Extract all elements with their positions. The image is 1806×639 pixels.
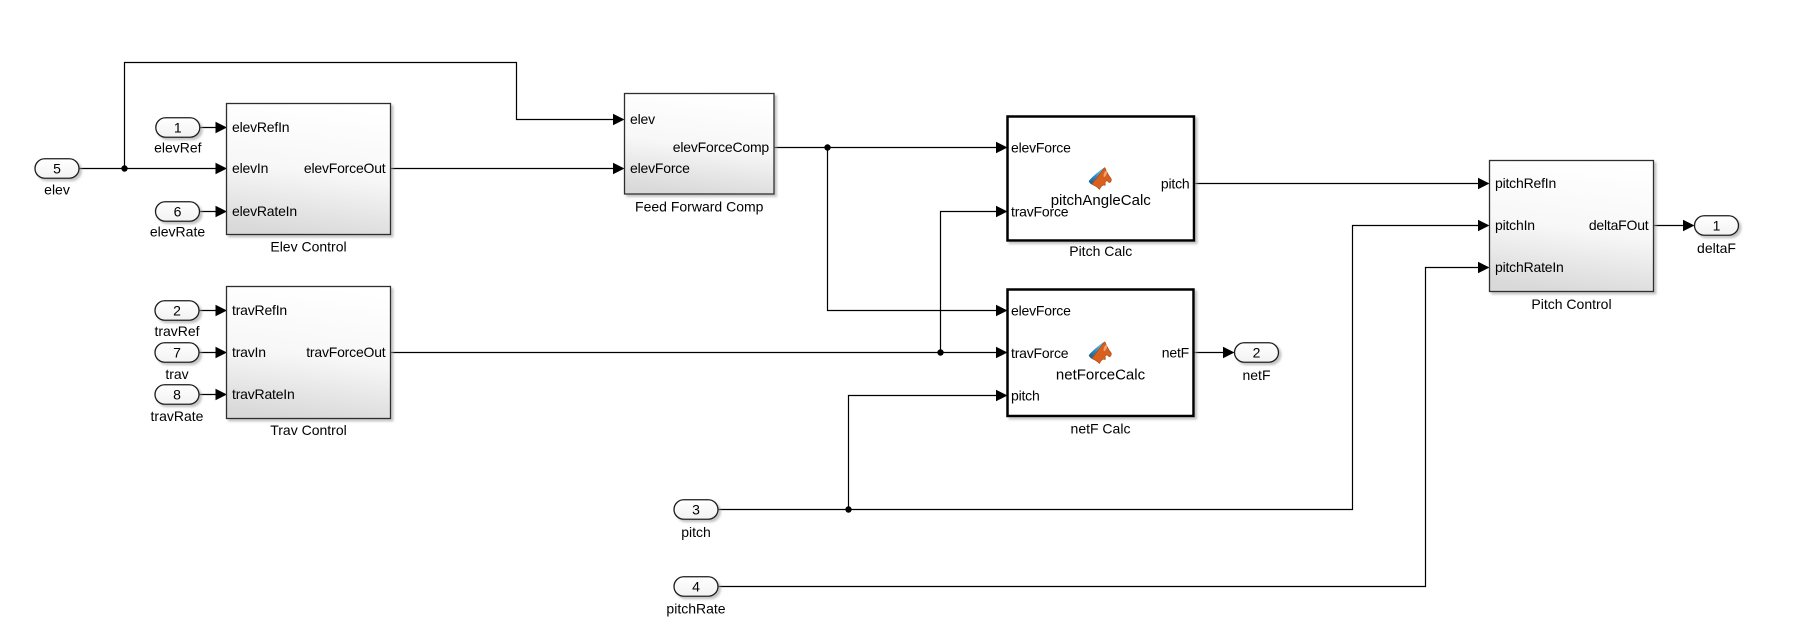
svg-text:pitchRate: pitchRate — [666, 600, 725, 616]
wire arrowhead into netF port — [1223, 347, 1235, 358]
wire arrowhead into travForce of netF Calc — [996, 347, 1008, 358]
svg-text:deltaFOut: deltaFOut — [1589, 217, 1649, 233]
wire arrowhead into travIn — [216, 347, 228, 358]
svg-text:elev: elev — [630, 111, 655, 127]
subsystem block Pitch Control — [1490, 161, 1654, 313]
wire pitchRate to pitchRateIn — [718, 268, 1483, 587]
node junction on pitch line — [845, 506, 851, 512]
wire elevForceComp branch to netF Calc — [828, 148, 1002, 311]
wire travRate to travRateIn — [199, 394, 221, 396]
outport 1 (deltaF) — [1695, 216, 1739, 256]
svg-text:pitch: pitch — [1011, 387, 1040, 403]
subsystem block Trav Control — [227, 287, 391, 439]
svg-text:pitchAngleCalc: pitchAngleCalc — [1051, 192, 1152, 209]
wire netF out to netF port — [1194, 352, 1229, 354]
svg-text:travRef: travRef — [154, 323, 199, 339]
wire arrowhead into pitch of netF Calc — [996, 390, 1008, 401]
inport 3 (pitch) — [674, 500, 718, 540]
svg-text:travIn: travIn — [232, 344, 266, 360]
wire arrowhead into pitchRateIn — [1478, 262, 1490, 273]
svg-text:Feed Forward Comp: Feed Forward Comp — [635, 199, 764, 215]
subsystem block Feed Forward Comp — [625, 94, 775, 215]
svg-text:pitchRefIn: pitchRefIn — [1495, 175, 1556, 191]
svg-text:netF: netF — [1162, 344, 1189, 360]
svg-text:travRateIn: travRateIn — [232, 386, 295, 402]
wire elevForceComp to elevForce of Pitch Calc — [774, 147, 1001, 149]
wire deltaFOut to deltaF port — [1654, 225, 1689, 227]
node junction on elev line — [121, 165, 127, 171]
node junction on elevForceComp line — [824, 144, 830, 150]
svg-text:elevRefIn: elevRefIn — [232, 119, 289, 135]
svg-text:2: 2 — [1253, 345, 1261, 361]
wire arrowhead into pitchRefIn — [1478, 178, 1490, 189]
svg-text:elevIn: elevIn — [232, 160, 268, 176]
wire elev branch to Feed Forward Comp — [125, 63, 619, 169]
wire pitch to pitchIn — [718, 226, 1483, 510]
svg-text:netF Calc: netF Calc — [1071, 421, 1131, 437]
svg-text:2: 2 — [173, 303, 181, 319]
wire trav to travIn — [199, 352, 221, 354]
svg-text:1: 1 — [174, 120, 182, 136]
outport 2 (netF) — [1235, 343, 1279, 383]
wire arrowhead into elevRefIn — [216, 122, 228, 133]
svg-text:5: 5 — [53, 161, 61, 177]
wire arrowhead into deltaF port — [1683, 220, 1695, 231]
svg-text:elev: elev — [44, 181, 70, 197]
wire travRef to travRefIn — [199, 310, 221, 312]
svg-text:trav: trav — [165, 366, 188, 382]
svg-text:netF: netF — [1242, 367, 1270, 383]
svg-text:1: 1 — [1713, 218, 1721, 234]
svg-text:7: 7 — [173, 345, 181, 361]
wire elev to elevIn — [79, 168, 221, 170]
svg-text:elevForce: elevForce — [1011, 302, 1071, 318]
node junction on travForce line — [937, 349, 943, 355]
svg-text:pitchRateIn: pitchRateIn — [1495, 259, 1564, 275]
inport 5 (elev) — [35, 159, 79, 198]
inport 6 (elevRate) — [150, 202, 205, 240]
svg-text:elevForce: elevForce — [630, 160, 690, 176]
inport 1 (elevRef) — [154, 118, 202, 156]
inport 2 (travRef) — [154, 301, 199, 339]
svg-text:elevRateIn: elevRateIn — [232, 203, 297, 219]
wire arrowhead into pitchIn — [1478, 220, 1490, 231]
inport 8 (travRate) — [151, 385, 204, 424]
svg-text:elevRate: elevRate — [150, 224, 205, 240]
svg-text:netForceCalc: netForceCalc — [1056, 366, 1146, 383]
svg-text:travRate: travRate — [151, 408, 204, 424]
svg-text:travForceOut: travForceOut — [306, 344, 386, 360]
svg-text:elevRef: elevRef — [154, 140, 202, 156]
svg-text:travRefIn: travRefIn — [232, 302, 287, 318]
svg-text:elevForce: elevForce — [1011, 139, 1071, 155]
svg-text:elevForceOut: elevForceOut — [304, 160, 386, 176]
wire arrowhead into elev of Feed Forward Comp — [613, 114, 625, 125]
wire arrowhead into elevForce of netF Calc — [996, 305, 1008, 316]
wire arrowhead into travRateIn — [216, 389, 228, 400]
svg-text:pitch: pitch — [1161, 175, 1190, 191]
subsystem block Elev Control — [227, 104, 391, 255]
wire arrowhead into elevForce of Pitch Calc — [996, 142, 1008, 153]
svg-text:8: 8 — [173, 387, 181, 403]
wire arrowhead into travRefIn — [216, 305, 228, 316]
wire pitch of Pitch Calc to pitchRefIn — [1194, 183, 1483, 185]
wire elevForceOut to elevForce of Feed Forward Comp — [391, 168, 619, 170]
svg-text:Elev Control: Elev Control — [270, 239, 346, 255]
svg-text:elevForceComp: elevForceComp — [673, 139, 770, 155]
svg-text:pitchIn: pitchIn — [1495, 217, 1535, 233]
wire travForce branch to Pitch Calc — [941, 212, 1002, 353]
wire travForceOut to travForce of netF Calc — [391, 352, 1002, 354]
svg-text:Pitch Control: Pitch Control — [1531, 296, 1611, 312]
svg-text:4: 4 — [692, 579, 700, 595]
svg-text:Trav Control: Trav Control — [270, 422, 347, 438]
wire elevRate to elevRateIn — [200, 211, 222, 213]
wire pitch branch to netF Calc — [849, 396, 1002, 510]
wire arrowhead into travForce of Pitch Calc — [996, 206, 1008, 217]
wire arrowhead into elevForce of Feed Forward Comp — [613, 163, 625, 174]
svg-text:travForce: travForce — [1011, 345, 1069, 361]
svg-text:Pitch Calc: Pitch Calc — [1069, 243, 1132, 259]
inport 4 (pitchRate) — [666, 577, 725, 617]
wire arrowhead into elevRateIn — [216, 206, 228, 217]
svg-text:3: 3 — [692, 502, 700, 518]
MATLAB function block netF Calc — [1008, 290, 1194, 437]
MATLAB function block Pitch Calc — [1008, 117, 1195, 260]
svg-text:pitch: pitch — [681, 524, 711, 540]
inport 7 (trav) — [155, 343, 199, 382]
wire arrowhead into elevIn — [216, 163, 228, 174]
svg-text:6: 6 — [174, 204, 182, 220]
svg-text:deltaF: deltaF — [1697, 240, 1736, 256]
wire elevRef to elevRefIn — [200, 127, 221, 129]
